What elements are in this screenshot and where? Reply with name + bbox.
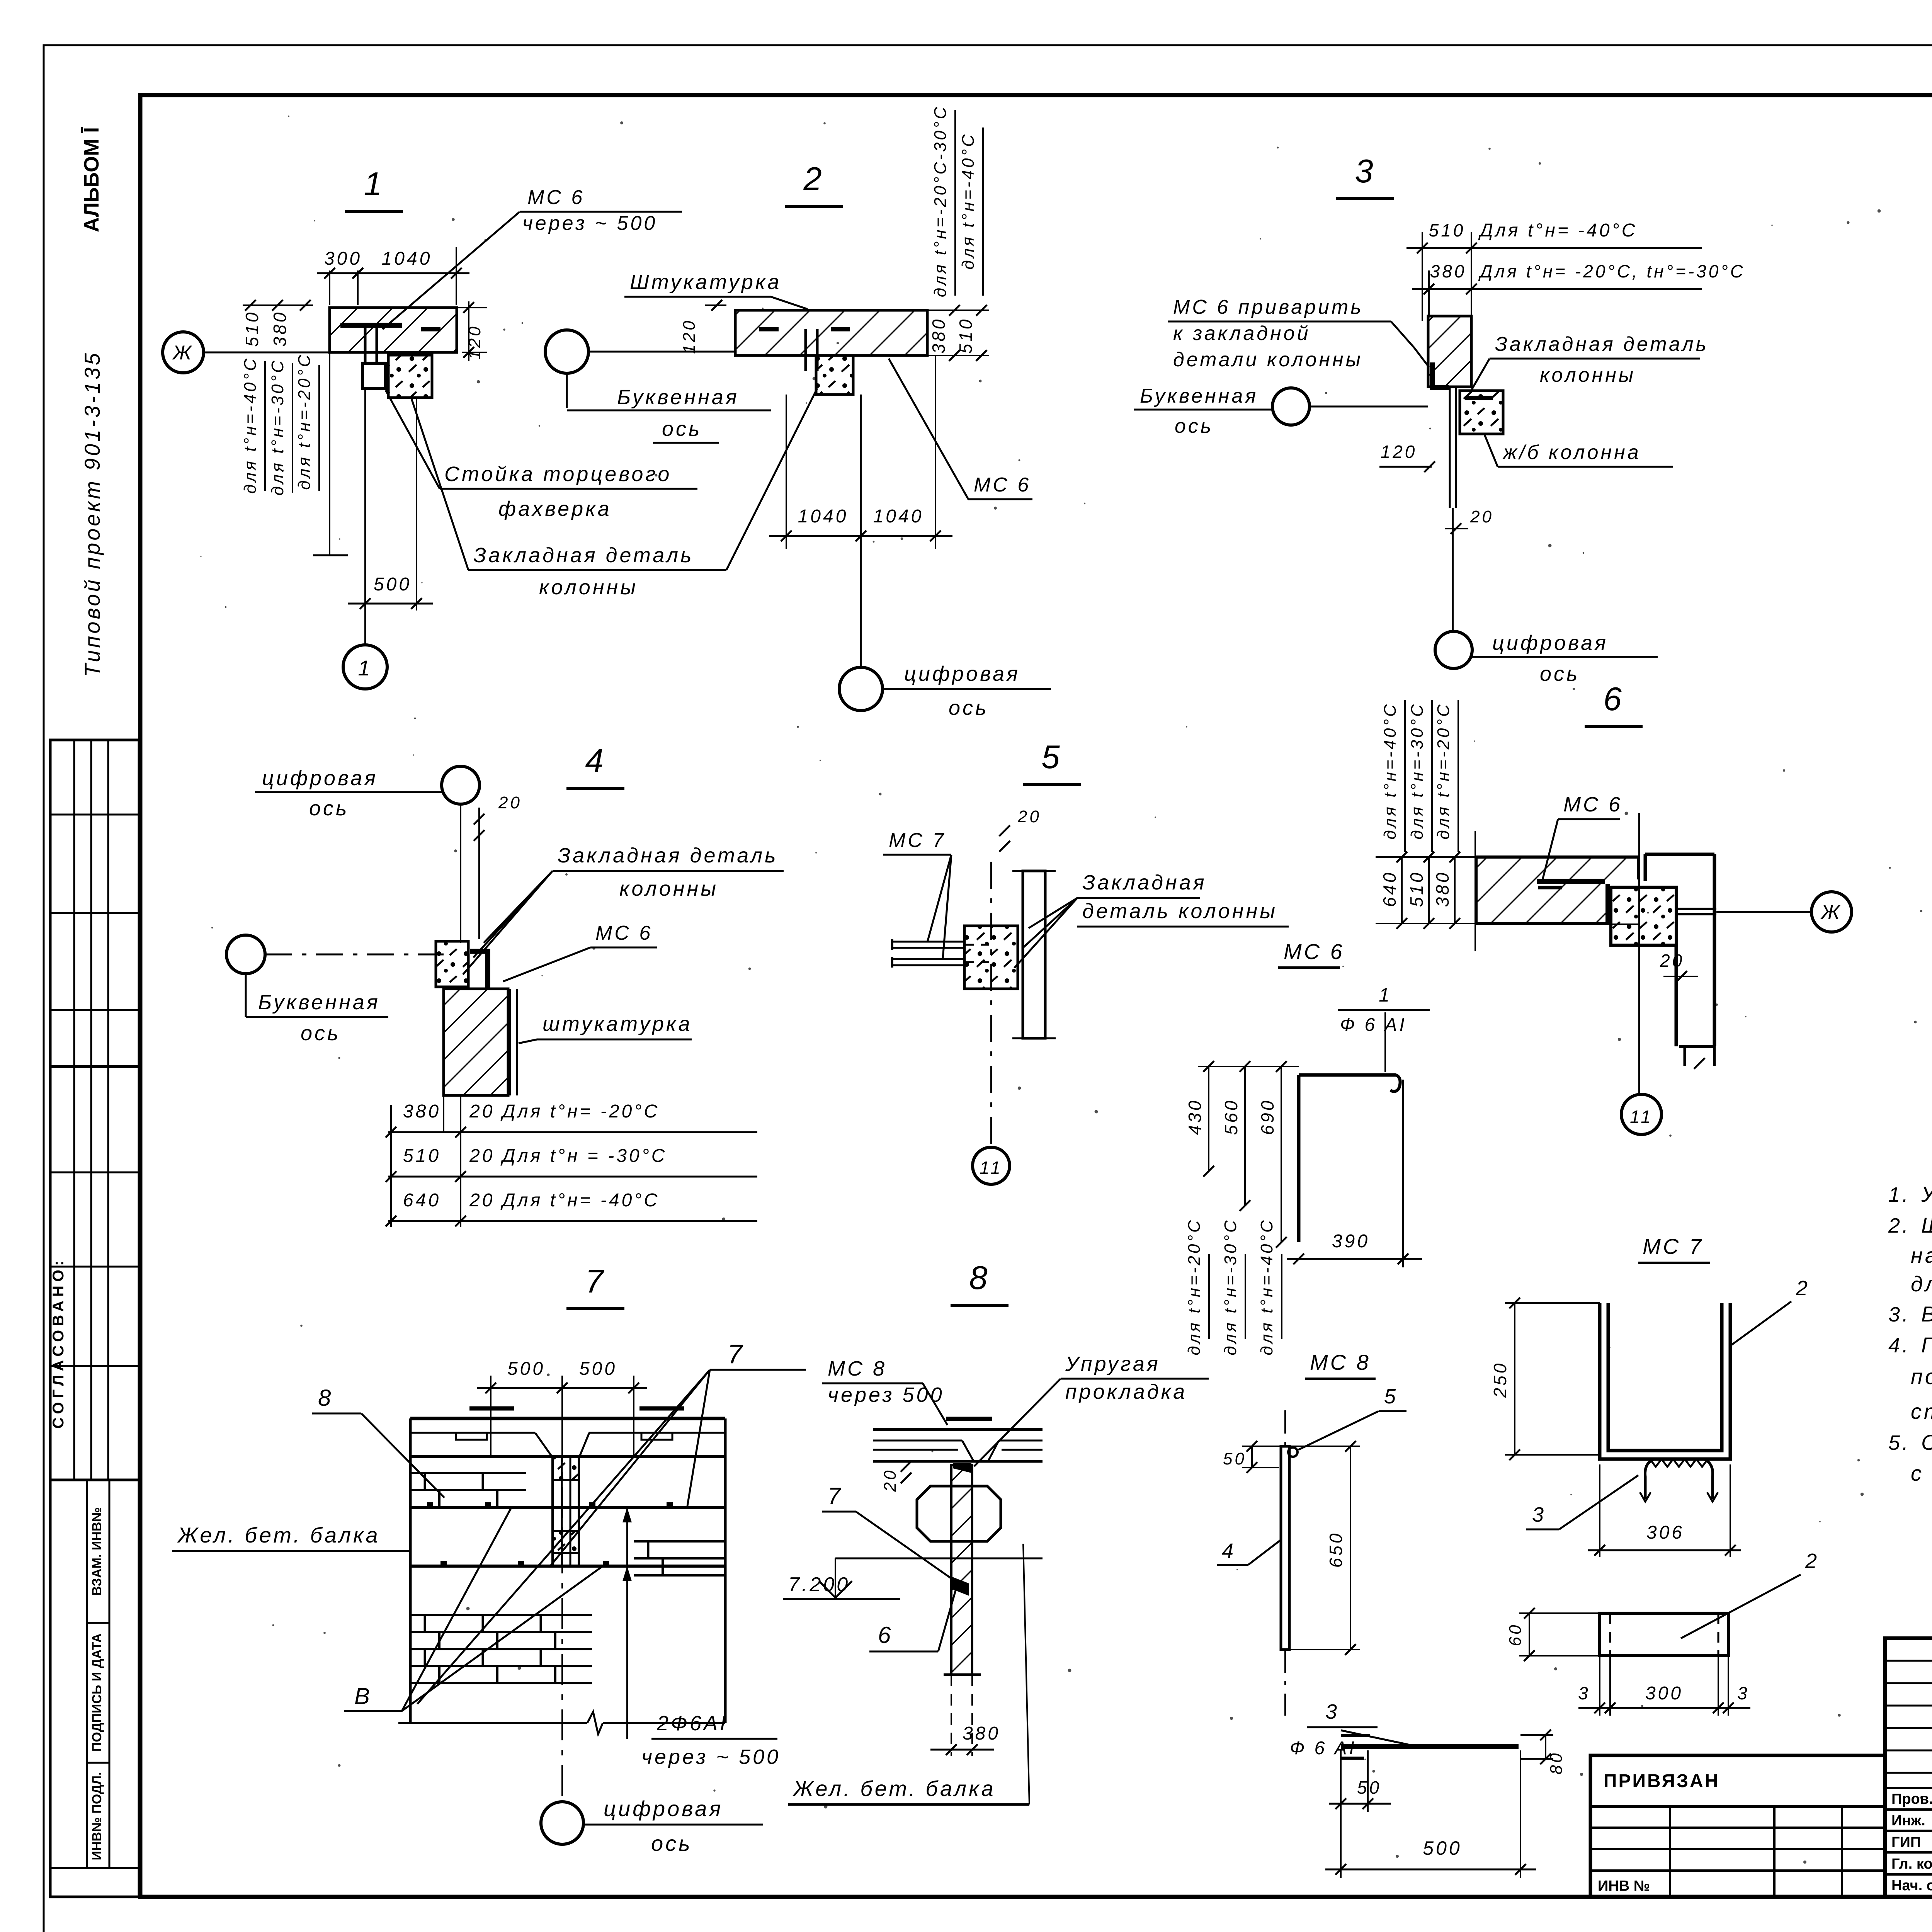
svg-text:20 Для t°н= -20°C: 20 Для t°н= -20°C [469,1101,660,1122]
svg-text:20 Для t°н= -40°C: 20 Для t°н= -40°C [469,1190,660,1211]
svg-text:20: 20 [1470,507,1494,526]
svg-text:11: 11 [1630,1107,1653,1127]
svg-text:ПОДПИСЬ И ДАТА: ПОДПИСЬ И ДАТА [90,1633,104,1752]
svg-text:колонны: колонны [1540,364,1636,386]
svg-text:детали колонны: детали колонны [1173,349,1363,371]
svg-text:Типовой проект 901-3-135: Типовой проект 901-3-135 [80,351,104,677]
svg-text:2: 2 [1796,1277,1810,1300]
svg-text:1.: 1. [1888,1183,1910,1206]
svg-text:Нач. отд: Нач. отд [1891,1878,1932,1894]
svg-text:назначается по шагу закладных: назначается по шагу закладных деталей ко… [1911,1243,1932,1267]
svg-text:СОГЛАСОВАНО:: СОГЛАСОВАНО: [50,1257,67,1429]
svg-text:с помощью сварных клещей.: с помощью сварных клещей. [1911,1461,1932,1485]
svg-text:250: 250 [1490,1361,1510,1398]
svg-text:ГИП: ГИП [1891,1834,1921,1850]
svg-text:Жел. бет. балка: Жел. бет. балка [177,1523,380,1547]
svg-text:306: 306 [1646,1522,1684,1543]
svg-text:Поз. 3 соединительного элемент: Поз. 3 соединительного элемента МС7 прив… [1921,1333,1932,1357]
svg-text:прокладка: прокладка [1065,1380,1187,1403]
svg-text:Упругая: Упругая [1065,1352,1160,1376]
svg-text:после монтажа поз. 2, в зависи: после монтажа поз. 2, в зависимости от п… [1911,1364,1932,1389]
svg-text:2.: 2. [1888,1214,1910,1237]
svg-text:7: 7 [585,1263,605,1300]
svg-text:3: 3 [1737,1683,1750,1703]
svg-text:МС 6: МС 6 [1563,793,1622,816]
svg-text:2Ф6АI: 2Ф6АI [656,1712,728,1735]
svg-text:1040: 1040 [873,506,924,527]
svg-text:для t°н=-40°C: для t°н=-40°C [959,132,978,270]
svg-text:3: 3 [1325,1700,1339,1723]
svg-text:МС 8: МС 8 [828,1357,887,1380]
svg-text:20: 20 [881,1468,900,1492]
svg-text:300: 300 [1645,1683,1683,1704]
svg-text:Закладная деталь: Закладная деталь [1495,333,1709,355]
svg-text:Стержни сваривать контактно-то: Стержни сваривать контактно-точечной сва… [1921,1430,1932,1454]
svg-text:стены.: стены. [1911,1399,1932,1423]
svg-text:80: 80 [1547,1751,1566,1775]
svg-text:ось: ось [949,696,988,719]
svg-text:ВЗАМ. ИНВ№: ВЗАМ. ИНВ№ [90,1507,104,1596]
svg-text:МС 6: МС 6 [595,922,653,944]
svg-text:50: 50 [1357,1777,1381,1798]
svg-text:500: 500 [579,1359,617,1379]
svg-text:2: 2 [1805,1549,1819,1573]
svg-text:Ж: Ж [172,342,194,364]
svg-text:380: 380 [1432,871,1452,907]
svg-text:МС 7: МС 7 [1643,1234,1704,1259]
svg-text:7: 7 [828,1483,843,1509]
svg-text:ж/б колонна: ж/б колонна [1502,441,1641,464]
svg-text:ось: ось [301,1022,340,1045]
svg-text:300: 300 [324,248,362,269]
svg-text:640: 640 [403,1190,441,1211]
svg-text:3: 3 [1532,1503,1546,1526]
svg-text:6: 6 [878,1622,893,1648]
svg-text:4: 4 [585,743,605,779]
svg-text:4.: 4. [1888,1334,1910,1357]
svg-text:430: 430 [1185,1099,1205,1135]
svg-text:1040: 1040 [798,506,849,527]
svg-text:Закладная деталь: Закладная деталь [473,544,694,567]
svg-text:к закладной: к закладной [1173,322,1311,345]
svg-text:510: 510 [1406,871,1427,907]
svg-text:1040: 1040 [382,248,432,269]
svg-text:для t°н=-40°C: для t°н=-40°C [1257,1218,1276,1355]
svg-text:Шаг соединительных элементов М: Шаг соединительных элементов МС6 в узлах… [1921,1213,1932,1237]
svg-text:380: 380 [929,317,949,354]
svg-text:380: 380 [403,1101,441,1122]
svg-text:8: 8 [969,1260,990,1296]
svg-text:Жел. бет. балка: Жел. бет. балка [792,1776,996,1801]
svg-text:Узлы замаркированы на листах А: Узлы замаркированы на листах АР-3 ÷ АР-5… [1921,1182,1932,1206]
svg-text:4: 4 [1222,1539,1236,1563]
svg-text:для t°н=-20°C: для t°н=-20°C [1434,702,1453,840]
svg-text:390: 390 [1332,1231,1370,1252]
svg-text:380: 380 [1430,261,1467,281]
svg-text:1: 1 [1379,984,1392,1006]
svg-text:Штукатурка: Штукатурка [630,270,781,294]
svg-text:В: В [354,1683,372,1709]
svg-text:120: 120 [680,318,699,354]
svg-text:цифровая: цифровая [1492,631,1608,655]
svg-text:690: 690 [1257,1099,1277,1135]
svg-text:Буквенная: Буквенная [258,991,380,1014]
svg-text:для крепления панелей.: для крепления панелей. [1911,1272,1932,1296]
svg-text:2: 2 [803,161,824,197]
svg-text:для t°н=-20°C: для t°н=-20°C [1185,1218,1204,1355]
svg-text:через ~ 500: через ~ 500 [522,212,657,235]
svg-text:Для t°н= -20°C, tн°=-30°C: Для t°н= -20°C, tн°=-30°C [1478,261,1745,281]
svg-text:цифровая: цифровая [262,767,378,790]
svg-text:цифровая: цифровая [604,1796,723,1821]
svg-text:640: 640 [1379,871,1400,907]
svg-text:Закладная: Закладная [1082,871,1207,894]
svg-text:фахверка: фахверка [498,497,612,520]
svg-text:5: 5 [1041,739,1062,776]
svg-text:деталь колонны: деталь колонны [1082,900,1277,923]
svg-text:1: 1 [364,166,384,202]
svg-text:5.: 5. [1888,1431,1910,1454]
svg-text:8: 8 [318,1385,333,1411]
svg-text:510: 510 [1429,220,1466,240]
svg-text:Стойка торцевого: Стойка торцевого [444,463,672,486]
svg-text:для t°н=-20°C: для t°н=-20°C [295,352,314,490]
svg-text:колонны: колонны [539,576,638,599]
svg-text:380: 380 [270,310,290,347]
svg-text:3: 3 [1355,153,1375,190]
svg-text:Буквенная: Буквенная [617,386,739,409]
svg-text:20: 20 [1660,951,1684,971]
svg-text:ИНВ№ ПОДЛ.: ИНВ№ ПОДЛ. [90,1772,104,1861]
svg-text:6: 6 [1603,681,1624,718]
svg-text:ось: ось [662,417,702,440]
svg-text:для t°н=-30°C: для t°н=-30°C [1221,1218,1240,1355]
svg-text:Ж: Ж [1820,901,1842,923]
svg-text:500: 500 [374,574,412,595]
svg-text:Для t°н= -40°C: Для t°н= -40°C [1478,220,1637,241]
svg-text:через 500: через 500 [828,1383,944,1406]
svg-text:3.: 3. [1888,1303,1910,1326]
svg-text:20 Для t°н = -30°C: 20 Для t°н = -30°C [469,1146,667,1166]
svg-text:Инж.: Инж. [1891,1813,1925,1829]
svg-text:11: 11 [980,1158,1003,1178]
svg-text:АЛЬБОМ Ī: АЛЬБОМ Ī [80,127,103,232]
svg-text:Ф 6 АI: Ф 6 АI [1340,1015,1407,1035]
svg-text:штукатурка: штукатурка [543,1012,692,1036]
svg-text:для t°н=-20°C-30°C: для t°н=-20°C-30°C [931,105,950,298]
svg-text:ось: ось [1175,415,1213,437]
svg-text:1: 1 [358,656,372,680]
svg-text:20: 20 [498,793,522,812]
svg-text:510: 510 [956,317,976,354]
svg-text:120: 120 [1381,442,1417,462]
svg-text:3: 3 [1578,1683,1590,1703]
svg-text:ось: ось [1540,662,1580,685]
svg-text:50: 50 [1223,1449,1247,1468]
svg-text:для t°н=-40°C: для t°н=-40°C [1381,702,1400,840]
svg-text:560: 560 [1221,1099,1241,1135]
svg-text:ось: ось [309,797,349,820]
svg-text:МС 8: МС 8 [1310,1350,1371,1374]
svg-text:500: 500 [507,1359,545,1379]
svg-text:для t°н=-40°C: для t°н=-40°C [241,356,260,494]
svg-text:380: 380 [963,1723,1000,1744]
svg-text:5: 5 [1384,1385,1398,1408]
svg-text:ПРИВЯЗАН: ПРИВЯЗАН [1604,1771,1719,1791]
svg-text:510: 510 [242,310,262,347]
svg-text:через ~ 500: через ~ 500 [641,1745,781,1769]
svg-text:МС 7: МС 7 [889,829,946,852]
svg-text:Буквенная: Буквенная [1140,385,1258,407]
svg-text:650: 650 [1326,1531,1346,1568]
svg-text:500: 500 [1423,1837,1462,1859]
svg-text:колонны: колонны [619,877,718,900]
svg-text:МС 6: МС 6 [974,474,1031,496]
svg-text:60: 60 [1506,1623,1525,1646]
svg-text:Закладная деталь: Закладная деталь [558,844,778,867]
svg-text:Пров.: Пров. [1891,1791,1932,1807]
svg-text:МС 6: МС 6 [1284,939,1345,964]
svg-text:МС 6: МС 6 [527,186,585,209]
svg-text:для t°н=-30°C: для t°н=-30°C [268,358,287,496]
svg-text:цифровая: цифровая [904,662,1020,685]
svg-text:510: 510 [403,1146,441,1166]
svg-text:МС 6 приварить: МС 6 приварить [1173,296,1364,318]
svg-text:ИНВ №: ИНВ № [1598,1878,1650,1894]
svg-text:Гл. констр: Гл. констр [1891,1856,1932,1872]
svg-text:20: 20 [1017,807,1041,826]
svg-text:Выборка стали дана на все здан: Выборка стали дана на все здание. [1921,1302,1932,1326]
svg-text:для t°н=-30°C: для t°н=-30°C [1408,702,1427,840]
svg-text:ось: ось [651,1831,692,1855]
svg-text:7: 7 [728,1339,745,1369]
svg-text:7.200: 7.200 [788,1573,850,1596]
